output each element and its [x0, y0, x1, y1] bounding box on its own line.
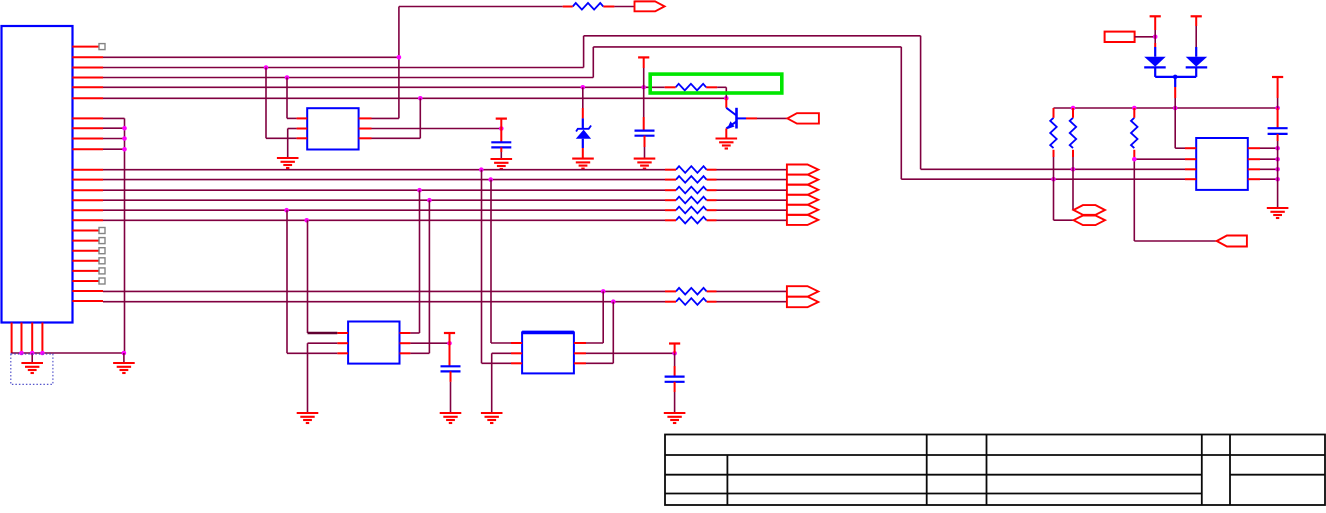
ground GND4 [277, 158, 299, 168]
wire U5 right pin5 [1260, 147, 1278, 149]
capacitor C2 wire upper [500, 129, 502, 143]
IC U1 [2, 26, 73, 323]
U1 pin stub 24 [72, 300, 103, 302]
wire line1 to U4 pin3 vertical [481, 170, 483, 364]
resistor R10 [676, 298, 707, 305]
power symbol VCC7 [1272, 76, 1283, 78]
ground GND6 [297, 413, 319, 423]
diode D1 [1154, 47, 1156, 57]
capacitor C3 [441, 366, 461, 371]
hex port H1 [1074, 205, 1106, 215]
port P11 [1217, 236, 1247, 247]
wire U2 pin1 branch vertical [286, 78, 288, 119]
resistor R7 [676, 207, 707, 214]
zener diode D3 wire upper [582, 87, 584, 108]
U5 right pin8 stub [1248, 178, 1260, 180]
U4 pin4 stub [574, 362, 586, 364]
U1 pin stub 14 [72, 199, 103, 201]
junction group2 b [122, 136, 127, 141]
U1 pin stub 12 [72, 179, 103, 181]
U3 pin6 stub [400, 332, 411, 334]
U1 pin stub 16 [72, 219, 103, 221]
diode common bus [1154, 67, 1156, 77]
wire U2 pin1 branch horizontal [287, 117, 297, 119]
junction line3 to U3 [417, 188, 422, 193]
junction U2 pin5 power [499, 126, 504, 131]
wire net N3 top run [593, 46, 901, 48]
wire group2 vertical [124, 118, 126, 353]
U1 pin stub 8 [72, 127, 103, 129]
wire U2 pin2 to ground [288, 128, 297, 130]
U4 pin5 stub [574, 352, 586, 354]
wire net N4 pin5 horizontal [103, 86, 665, 88]
IC U4 [522, 332, 574, 373]
wire U4 pin2 ground vertical [491, 353, 493, 413]
wire U1 bottom bus [11, 352, 124, 354]
U1 pin stub 5 [72, 86, 103, 88]
resistor R9 [676, 288, 707, 295]
wire R5 to port [717, 189, 787, 191]
wire U5 right pin7 [1260, 168, 1278, 170]
wire U3 pin4 horizontal [410, 352, 429, 354]
wire line7 to U4 pin6 vertical [602, 291, 604, 343]
wire net N5 pin6 horizontal [103, 97, 726, 99]
no-connect pin square, U1 pin 22 [72, 280, 99, 282]
dotted selection box [11, 354, 53, 384]
wire net N1 vertical at x399 [398, 7, 400, 119]
wire net N3 vertical up [592, 47, 594, 78]
wire group2 pin9 [103, 138, 125, 140]
port P1 [635, 1, 665, 11]
U1 bottom pin stub 28 [41, 323, 43, 354]
port P9 [787, 286, 818, 297]
junction N4 power [641, 85, 646, 90]
wire U5 right pin6 [1260, 158, 1278, 160]
junction group2 c [122, 147, 127, 152]
resistor R3 [676, 166, 707, 173]
wire R10 to port [717, 301, 787, 303]
wire U2 pin4 horizontal [372, 137, 421, 139]
wire net N3 right vertical [900, 47, 902, 179]
wire net N3 pin4 horizontal [103, 77, 593, 79]
U1 pin stub 10 [72, 148, 103, 150]
wire net N1 pin2 horizontal [103, 56, 399, 58]
capacitor C2 wire lower [500, 147, 502, 152]
IC U2 [307, 108, 358, 149]
resistor R12 [1070, 118, 1077, 148]
ground GND3 [716, 139, 738, 149]
diode D2 [1195, 47, 1197, 57]
junction label VCC [1153, 35, 1158, 40]
port P2 [787, 113, 819, 123]
U1 pin stub 11 [72, 169, 103, 171]
transistor Q1 [735, 108, 738, 129]
highlight green box [650, 74, 782, 93]
ground GND1 [572, 159, 594, 169]
wire U5 pin1 horizontal [1175, 147, 1185, 149]
no-connect pin square, U1 pin 20 [72, 260, 99, 262]
power VCC7 stem [1277, 77, 1279, 98]
junction N3 to U2 [285, 75, 290, 80]
U4 pin2 stub [511, 352, 522, 354]
wire U4 pin3 horizontal [482, 362, 512, 364]
port P10 [787, 297, 818, 308]
U1 bottom pin stub 26 [21, 323, 23, 354]
wire U4 pin6 horizontal [586, 342, 603, 344]
power symbol VCC1 [638, 56, 649, 58]
U2 pin2 stub [297, 128, 308, 130]
U3 pin3 stub [337, 352, 348, 354]
U2 pin3 stub [297, 137, 308, 139]
junction bottom a [19, 351, 24, 356]
wire R1 to port P1 [614, 6, 634, 8]
junction rail R13 [1132, 106, 1137, 111]
wire U3 pin1 horizontal thick [308, 332, 338, 334]
junction N1 [397, 55, 402, 60]
ground GND9 [664, 413, 686, 423]
junction line6 to U3 [304, 218, 309, 223]
wire VCC rail [1054, 107, 1278, 109]
wire group2 pin7 [103, 117, 125, 119]
junction group2 a [122, 126, 127, 131]
ground GND5 [491, 159, 513, 169]
capacitor C5 [1268, 128, 1288, 134]
wire U3 pin3 horizontal [287, 352, 337, 354]
junction line7 [601, 289, 606, 294]
transistor Q1 collector wire [725, 98, 727, 108]
junction U5 right pin5 [1275, 146, 1280, 151]
resistor R5 [676, 187, 707, 194]
zener diode D3 [582, 118, 584, 129]
U5 right pin6 stub [1248, 158, 1260, 160]
hex port H2 [1074, 216, 1106, 226]
junction N5 U2 branch [418, 96, 423, 101]
wire data line 1 [103, 169, 665, 171]
U1 bottom pin stub 25 [11, 323, 13, 354]
port P7 [787, 205, 818, 215]
junction U5 right pin8 [1275, 177, 1280, 182]
wire data line 6 [103, 219, 665, 221]
U4 pin3 stub [511, 362, 522, 364]
junction N5 transistor [724, 96, 729, 101]
U1 pin stub 7 [72, 117, 103, 119]
wire net N2 to U5 pin3 [921, 168, 1185, 170]
U1 pin stub 3 [72, 67, 103, 69]
power symbol VCC3 [444, 332, 455, 334]
port P5 [787, 185, 818, 195]
wire R11 lower vertical [1053, 157, 1055, 220]
wire line6 to U3 pin1 vertical [307, 220, 309, 333]
power VCC6 stem [1195, 16, 1197, 26]
wire R13 to port P11 [1134, 240, 1216, 242]
U1 pin stub 9 [72, 138, 103, 140]
wire data line 4 [103, 199, 665, 201]
power symbol VCC4 [669, 342, 680, 344]
transistor Q1 emitter wire [725, 129, 727, 139]
transistor Q1 base stub [746, 117, 757, 119]
wire net N2 right vertical [920, 36, 922, 170]
junction bottom d [122, 351, 127, 356]
wire net N3 to U5 pin4 [901, 178, 1185, 180]
capacitor C2 [491, 142, 511, 147]
IC U3 [348, 322, 399, 364]
ground GND12 [1267, 208, 1289, 218]
ground GND10 stem [31, 353, 33, 363]
wire R8 to port [717, 219, 787, 221]
junction U5 right pin7 [1275, 167, 1280, 172]
port P6 [787, 195, 818, 205]
wire U2 pin3 branch vertical [265, 68, 267, 139]
wire line7 [103, 290, 665, 292]
ground GND8 [481, 413, 503, 423]
U5 left pin4 stub [1185, 178, 1196, 180]
junction U3 pin5 power [447, 341, 452, 346]
wire R7 to port [717, 209, 787, 211]
wire net N2 top run [584, 35, 921, 37]
resistor R13 [1131, 118, 1138, 148]
wire net N2 pin3 horizontal [103, 67, 584, 69]
resistor R11 [1050, 118, 1057, 148]
capacitor C3 wire upper [449, 343, 451, 366]
wire R11 to hex port [1054, 219, 1074, 221]
U2 pin5 stub [359, 128, 372, 130]
wire R4 to port [717, 179, 787, 181]
wire data line 3 [103, 189, 665, 191]
port P3 [787, 165, 818, 175]
wire U4 pin2 horizontal [492, 352, 511, 354]
wire net N1 top horizontal [399, 6, 563, 8]
junction diode bus [1173, 75, 1178, 80]
junction rail cap [1275, 106, 1280, 111]
resistor R8 [676, 217, 707, 224]
capacitor C5 wire upper [1277, 108, 1279, 128]
ground GND11 [113, 363, 135, 373]
capacitor C4 wire upper [674, 353, 676, 366]
capacitor C4 [665, 377, 685, 382]
wire U2 pin5 horizontal [372, 128, 502, 130]
junction bottom b [30, 351, 35, 356]
wire U2 pin6 to N1 vertical [372, 117, 399, 119]
junction line1 to U4 [479, 167, 484, 172]
junction line8 [611, 299, 616, 304]
port P4 [787, 175, 818, 185]
U4 pin6 stub [574, 342, 586, 344]
no-connect pin square, U1 pin 21 [72, 270, 99, 272]
wire line8 [103, 301, 665, 303]
wire line5 to U3 pin3 vertical [286, 210, 288, 353]
U2 pin1 stub [297, 117, 308, 119]
capacitor C1 wire upper [643, 87, 645, 117]
title block table [665, 435, 1325, 506]
U1 bottom pin stub 27 [31, 323, 33, 354]
diode bus stem [1174, 77, 1176, 87]
junction N3 at R7 [1051, 177, 1056, 182]
junction line4 to U3 [427, 198, 432, 203]
wire U3 pin5 horizontal [410, 342, 449, 344]
power symbol VCC5 [1150, 15, 1161, 17]
wire net N2 vertical up [583, 36, 585, 68]
junction line2 to U4 [488, 177, 493, 182]
wire U4 pin1 horizontal [491, 342, 511, 344]
junction N2 to U2 [264, 65, 269, 70]
U5 left pin2 stub [1185, 158, 1196, 160]
U1 pin stub 15 [72, 209, 103, 211]
wire U3 pin6 horizontal [410, 332, 419, 334]
power VCC3 stem [449, 333, 451, 343]
wire group2 pin10 [103, 148, 125, 150]
U4 pin1 stub [511, 342, 522, 344]
resistor R2 (highlighted) [676, 84, 707, 91]
U5 right pin5 stub [1248, 147, 1260, 149]
wire U5 right pin8 [1260, 178, 1278, 180]
capacitor C3 wire lower [450, 371, 452, 382]
ground GND7 [440, 413, 462, 423]
no-connect pin square, U1 pin 1 [72, 46, 99, 48]
ground GND10 [21, 363, 43, 373]
junction line5 to U3 [284, 208, 289, 213]
wire line8 to U4 pin4 vertical [612, 302, 614, 364]
wire line2 to U4 pin1 vertical [490, 180, 492, 343]
wire U2 pin3 branch horizontal [266, 137, 297, 139]
wire U4 pin5 horizontal [586, 352, 675, 354]
wire R3 to port [717, 169, 787, 171]
U1 pin stub 13 [72, 189, 103, 191]
junction U5 right pin6 [1275, 157, 1280, 162]
wire diode node to U5 pin1 vertical [1174, 108, 1176, 148]
wire data line 5 [103, 209, 665, 211]
power VCC1 stem [643, 57, 645, 68]
resistor R1 [573, 3, 604, 10]
no-connect pin square, U1 pin 19 [72, 250, 99, 252]
junction rail R12 [1071, 106, 1076, 111]
U2 pin6 stub [359, 117, 372, 119]
U5 right pin7 stub [1248, 168, 1260, 170]
junction N2 at R8 [1071, 167, 1076, 172]
U1 pin stub 23 [72, 290, 103, 292]
ground GND2 [634, 159, 656, 169]
U3 pin1 stub [337, 332, 348, 334]
wire line4 to U3 pin4 vertical [428, 200, 430, 353]
wire U2 pin6-branch vertical [419, 98, 421, 138]
no-connect pin square, U1 pin 17 [72, 230, 99, 232]
wire R13 lower vertical [1133, 157, 1135, 241]
U5 left pin3 stub [1185, 168, 1196, 170]
power symbol VCC6 [1191, 15, 1202, 17]
wire U5 pin2 line [1134, 158, 1185, 160]
U5 left pin1 stub [1185, 147, 1196, 149]
ground GND11 stem [123, 353, 125, 363]
U2 pin4 stub [359, 137, 372, 139]
power symbol VCC2 [496, 117, 507, 119]
junction R13 pin2 [1132, 157, 1137, 162]
wire R2 to collector [717, 86, 726, 88]
wire label to VCC [1135, 36, 1156, 38]
U1 pin stub 6 [72, 97, 103, 99]
U1 pin stub 2 [72, 56, 103, 58]
wire group2 pin8 [103, 127, 125, 129]
wire line3 to U3 pin6 vertical [419, 190, 421, 333]
wire R9 to port [717, 290, 787, 292]
wire U4 pin4 horizontal [586, 362, 613, 364]
capacitor C1 wire lower [644, 136, 646, 147]
power VCC5 stem [1154, 16, 1156, 30]
no-connect pin square, U1 pin 18 [72, 240, 99, 242]
wire data line 2 [103, 179, 665, 181]
wire U3 pin2 horizontal [308, 342, 338, 344]
capacitor C5 wire lower [1277, 134, 1279, 141]
wire Q1 base to port P2 [757, 117, 787, 119]
junction bottom c [40, 351, 45, 356]
resistor R4 [676, 176, 707, 183]
U3 pin4 stub [400, 352, 411, 354]
U3 pin2 stub [337, 342, 348, 344]
junction U4 pin5 power [672, 351, 677, 356]
power VCC2 stem [500, 119, 502, 129]
wire U2 pin2 ground vertical [287, 129, 289, 159]
capacitor C1 [635, 131, 655, 136]
port P1 highlight [635, 0, 656, 2]
wire U3 pin2 ground vertical [307, 343, 309, 413]
resistor R6 [676, 197, 707, 204]
IC U5 [1196, 138, 1248, 190]
label box [1105, 32, 1135, 42]
junction N4 zener [581, 85, 586, 90]
power VCC4 stem [674, 344, 676, 354]
port P8 [787, 215, 818, 225]
U1 pin stub 4 [72, 77, 103, 79]
wire R6 to port [717, 199, 787, 201]
wire R12 lower vertical [1072, 157, 1074, 210]
junction rail diodes [1173, 106, 1178, 111]
U3 pin5 stub [400, 342, 411, 344]
capacitor C4 wire lower [674, 382, 676, 392]
